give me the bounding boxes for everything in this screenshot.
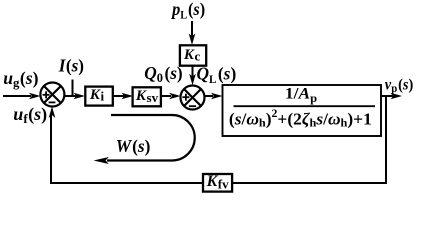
svg-text:Ksv: Ksv: [135, 88, 159, 105]
svg-text:Q0(s): Q0(s): [144, 63, 183, 86]
svg-text:QL(s): QL(s): [197, 63, 237, 86]
svg-text:Kc: Kc: [183, 47, 201, 63]
svg-text:pL(s): pL(s): [170, 0, 205, 22]
svg-text:I(s): I(s): [58, 55, 84, 75]
svg-text:Ki: Ki: [89, 87, 105, 104]
svg-text:Kfv: Kfv: [206, 173, 230, 191]
svg-text:ug(s): ug(s): [3, 68, 38, 90]
svg-text:vp(s): vp(s): [385, 76, 414, 95]
svg-text:W(s): W(s): [116, 136, 151, 156]
svg-text:uf(s): uf(s): [13, 104, 47, 126]
svg-text:(s/ωh)2+(2ζhs/ωh)+1: (s/ωh)2+(2ζhs/ωh)+1: [229, 107, 372, 130]
